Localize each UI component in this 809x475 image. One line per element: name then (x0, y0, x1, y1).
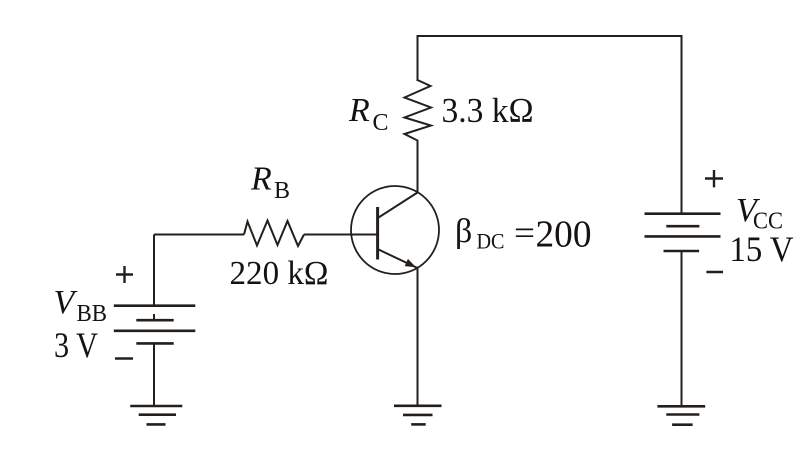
svg-text:200: 200 (536, 214, 592, 256)
svg-text:=: = (514, 215, 535, 252)
svg-text:3 V: 3 V (54, 325, 98, 365)
svg-text:BB: BB (77, 301, 108, 327)
svg-text:R: R (250, 161, 272, 198)
svg-text:15 V: 15 V (730, 229, 794, 269)
svg-text:C: C (373, 110, 389, 136)
svg-text:DC: DC (477, 229, 505, 254)
svg-text:B: B (274, 178, 290, 204)
svg-text:3.3 kΩ: 3.3 kΩ (442, 91, 534, 130)
svg-text:R: R (348, 92, 370, 129)
svg-text:V: V (54, 284, 79, 321)
svg-text:220 kΩ: 220 kΩ (230, 255, 329, 292)
svg-text:β: β (455, 213, 472, 250)
